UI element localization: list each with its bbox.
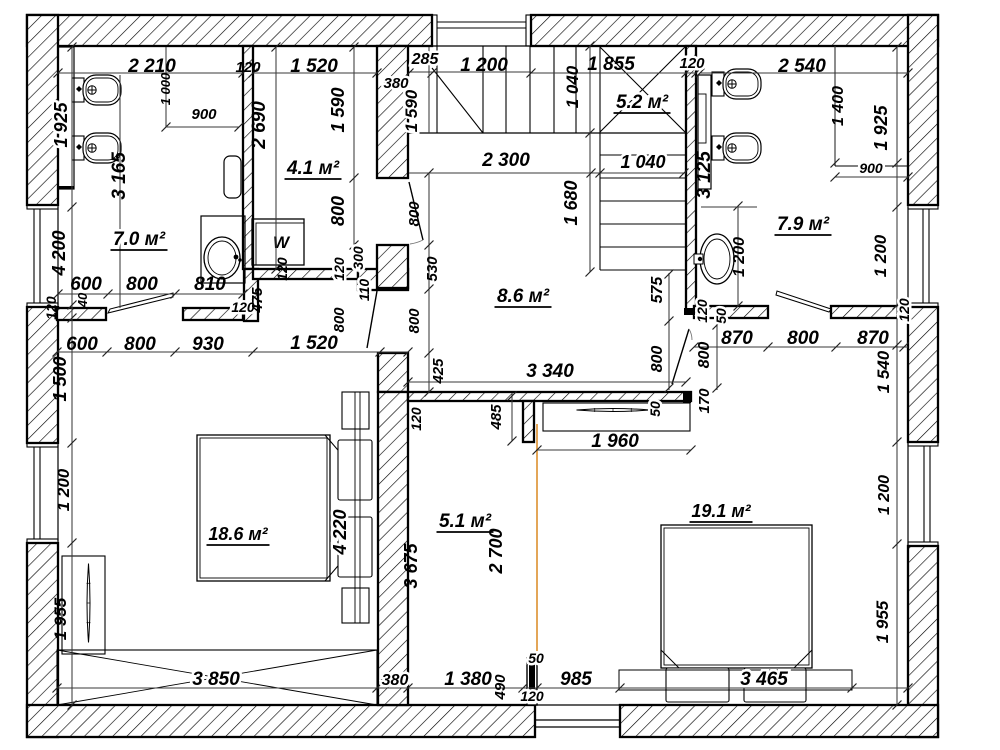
shelf top room 19.1 [543,403,690,431]
svg-text:475: 475 [249,287,266,314]
wall jog below room 4.1 (475 step) [244,269,258,321]
svg-text:110: 110 [356,279,372,302]
window inner face lines [58,46,908,546]
svg-text:600: 600 [70,274,102,295]
door corridor to room 18.6 [367,291,377,348]
dim line bathroom 7.9 1200 sink [701,202,757,311]
svg-text:930: 930 [192,334,224,355]
dim texts corridor bottom [66,333,338,355]
wall between bathroom 7.0 and room 4.1 [243,46,253,269]
svg-text:2 540: 2 540 [777,56,826,77]
svg-text:380: 380 [383,75,409,92]
svg-text:985: 985 [560,669,592,690]
window left upper (bathroom 7.0) [27,205,58,307]
svg-text:50: 50 [713,308,729,324]
bathroom 7.0 floor wall left segment [57,308,106,320]
bed room 19.1 [661,525,812,702]
pier in wall between corridor and hall [377,245,408,288]
svg-text:2 700: 2 700 [486,528,506,574]
room 4.1 floor wall [253,269,358,279]
dim texts bottom row [192,650,788,704]
svg-text:800: 800 [124,334,156,355]
svg-text:5.1 м²: 5.1 м² [439,511,492,532]
svg-text:1 955: 1 955 [51,597,70,640]
stair area 5.2 diagonal break lines [600,47,685,132]
stub wall below partition (485) [523,401,534,442]
svg-text:120: 120 [679,55,705,72]
svg-text:1 590: 1 590 [402,89,421,132]
svg-text:18.6 м²: 18.6 м² [208,524,268,544]
svg-text:1 500: 1 500 [50,356,70,401]
svg-text:50: 50 [528,650,544,666]
door bathroom 7.9 [776,291,831,312]
svg-text:800: 800 [406,201,423,227]
door room 4.1 to hall [409,182,423,244]
dim texts left column [49,101,73,640]
dim line corridor 600/800/930/1520 [53,348,413,357]
outer wall bottom-right segment [620,705,938,737]
svg-text:810: 810 [194,274,226,295]
outer wall left: lower segment [27,543,58,737]
svg-text:1 680: 1 680 [561,180,581,225]
svg-text:380: 380 [382,672,409,689]
stair upper flight treads [409,46,686,133]
dim line hall left column 800/530/800/425 [425,173,434,397]
svg-text:1 000: 1 000 [158,72,173,105]
svg-text:4 200: 4 200 [49,230,69,276]
washing machine W [252,219,304,265]
svg-text:3 465: 3 465 [740,669,788,690]
shelf sliding leaf room 19.1 [577,409,650,412]
door hall to room 19.1 [672,329,692,384]
window top (stair hall) [432,15,531,46]
svg-text:800: 800 [406,308,423,334]
dim texts top row [127,51,826,77]
svg-text:3 340: 3 340 [526,361,574,382]
svg-text:19.1 м²: 19.1 м² [691,501,751,521]
wall segment above wardrobe wall (425) [378,353,408,392]
partition end cap at door to 19.1 [683,392,691,403]
toilet [72,75,121,105]
svg-text:870: 870 [857,328,889,349]
svg-text:120: 120 [331,257,347,281]
svg-text:900: 900 [859,160,883,176]
svg-text:1 380: 1 380 [444,669,492,690]
bathroom 7.0 floor wall right segment [183,308,243,320]
stub wall at balcony door (room 5.1/19.1) [527,658,537,705]
svg-text:7.0 м²: 7.0 м² [113,229,166,250]
svg-text:485: 485 [488,404,505,431]
svg-text:7.9 м²: 7.9 м² [777,214,830,235]
svg-text:800: 800 [331,307,348,333]
window right lower (room 19.1) [908,442,938,546]
installation ledge bathroom 7.9 [698,75,711,189]
dim line room 5.1 485 [508,392,517,446]
svg-text:800: 800 [649,346,666,373]
svg-text:490: 490 [492,674,509,701]
svg-text:1 925: 1 925 [51,101,71,147]
outer wall right: upper segment [908,15,938,205]
svg-text:1 855: 1 855 [587,54,635,75]
dim line bathroom 7.0 bottom 600/800/810 [54,290,248,299]
outer wall left: middle segment [27,307,58,443]
svg-text:1 200: 1 200 [871,234,890,277]
svg-text:800: 800 [126,274,158,295]
svg-text:3 850: 3 850 [192,669,240,690]
dim line right column [893,43,902,710]
bathroom 7.9 floor wall left segment [694,306,768,318]
svg-text:575: 575 [649,276,666,304]
balcony door bottom (room 19.1) [535,705,620,737]
svg-text:3 165: 3 165 [109,152,130,200]
toilet [712,69,761,99]
wardrobe bottom room 18.6 (crossed) [57,650,377,705]
dim texts bathroom 7.9 [694,86,891,277]
dim line bathroom 7.9 1400/900 [831,46,913,182]
svg-text:1 925: 1 925 [871,104,891,150]
svg-text:2 690: 2 690 [249,101,270,150]
svg-text:600: 600 [66,334,98,355]
svg-text:50: 50 [647,401,663,417]
dim line room 4.1 vertical 2690 [272,43,281,274]
svg-text:800: 800 [328,196,348,226]
window right upper (bathroom 7.9) [908,205,938,307]
dim texts near 19.1 door [647,276,912,417]
svg-text:40: 40 [75,292,90,308]
wall between room 4.1 and stair hall [377,46,408,178]
dim line bathroom 7.0 interior 1000/900 [162,47,244,132]
svg-text:1 400: 1 400 [830,86,847,126]
svg-text:1 520: 1 520 [290,56,338,77]
wall block right of corridor (L shape) [358,269,408,290]
stair lower flight treads [600,133,686,270]
svg-text:1 200: 1 200 [54,468,73,511]
svg-text:1 540: 1 540 [874,350,893,393]
svg-text:120: 120 [274,257,290,281]
door bathroom 7.0 [108,293,173,313]
dim texts room 19.1 [591,350,893,643]
sink counter bathroom 7.0 [201,216,245,283]
svg-text:120: 120 [520,688,544,704]
svg-text:4.1 м²: 4.1 м² [286,158,340,179]
outer wall bottom-left segment [27,705,535,737]
dim line bathroom 7.9 bottom 870/800/870 [690,343,909,352]
svg-text:1 200: 1 200 [876,475,893,515]
svg-text:120: 120 [43,296,59,320]
svg-text:425: 425 [430,358,447,385]
toilet [72,133,121,163]
dim texts bathroom 7.0 [43,72,266,320]
wardrobe sliding leaf room 18.6 [87,564,90,643]
dim line stair left 1590/1040/1680 [429,42,595,277]
nightstand bottom room 18.6 [342,588,369,623]
svg-text:900: 900 [191,106,217,123]
towel rail bathroom 7.0 [224,156,241,198]
dim line 1960 room 19.1 shelf [533,446,696,455]
dim texts stair hall [331,65,671,384]
svg-text:285: 285 [411,51,440,68]
svg-text:120: 120 [235,59,261,76]
svg-text:170: 170 [696,388,713,414]
bathroom 7.9 floor wall right segment [831,306,908,318]
dim line 3165 bathroom 7.0 [119,75,121,308]
dim line hall 2300/1040 [409,169,689,178]
dim texts room 4.1 [249,75,409,301]
sink bathroom 7.0 [204,237,240,279]
dim line room 4.1 vertical 1590/800 [350,43,359,250]
svg-text:1 955: 1 955 [873,600,892,643]
outer wall top-right segment [531,15,938,46]
sink bathroom 7.9 [694,234,734,284]
sliding door room 5.1 (orange) [536,424,538,658]
svg-text:1 200: 1 200 [731,237,748,277]
svg-text:2 300: 2 300 [481,150,530,171]
window left lower (room 18.6) [27,443,58,543]
closet niche bathroom 7.9 [835,46,908,166]
svg-text:3 125: 3 125 [694,151,715,199]
svg-text:1 040: 1 040 [620,152,665,172]
svg-text:120: 120 [694,299,710,323]
wall between room 18.6 and room 5.1 [378,392,408,705]
outer wall left: upper segment [27,15,58,205]
svg-text:300: 300 [350,246,366,270]
svg-text:530: 530 [424,256,441,282]
svg-text:870: 870 [721,328,753,349]
nightstand top room 18.6 [342,392,369,429]
svg-text:1 040: 1 040 [563,65,582,108]
svg-text:120: 120 [896,298,912,322]
dim texts room 5.1 [401,404,506,589]
dim line top row [54,69,913,78]
wall right of stairs (hall / bathroom 7.9) [686,46,696,313]
dim texts room 18.6 [207,509,351,555]
wardrobe left room 18.6 [62,556,105,654]
wall top of room 5.1 and room 19.1 partition [408,392,691,401]
dim line bottom row [53,684,913,693]
svg-text:8.6 м²: 8.6 м² [497,286,550,307]
toilet [712,133,761,163]
svg-text:800: 800 [787,328,819,349]
dim line vertical 575/800 left of 19.1 door [665,270,722,393]
outer wall top-left segment [27,15,432,46]
platform under bed 19.1 [619,670,852,690]
installation ledge bathroom 7.0 [58,47,74,189]
svg-text:4 220: 4 220 [330,509,350,555]
dim line hall 3340 [404,378,691,387]
svg-text:1 960: 1 960 [591,431,639,452]
svg-text:5.2 м²: 5.2 м² [616,92,669,113]
svg-text:800: 800 [696,342,713,369]
dim line left column [68,43,77,710]
outer wall right: lower segment [908,546,938,737]
outer wall right: middle segment [908,307,938,442]
svg-text:3 675: 3 675 [401,542,421,588]
svg-text:120: 120 [408,407,424,431]
bed room 18.6 [197,392,372,623]
svg-text:1 200: 1 200 [460,55,508,76]
svg-text:1 520: 1 520 [290,333,338,354]
svg-text:1 590: 1 590 [328,87,348,132]
